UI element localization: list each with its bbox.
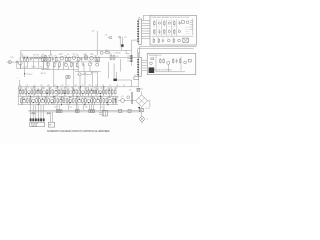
- wire R1 R2 drops: [23, 63, 25, 68]
- svg-text:47K: 47K: [84, 54, 87, 56]
- wire bridge bottom: [141, 107, 143, 109]
- transistor Q42: [168, 22, 170, 24]
- wire band top rail: [18, 86, 132, 88]
- wire inset link A: [140, 47, 197, 57]
- node inset1 legend: [185, 27, 190, 36]
- capacitor C20 electrolytic: [131, 92, 133, 104]
- capacitor C41: [176, 59, 178, 63]
- resistor R5: [55, 55, 57, 62]
- resistor R17 relay: [134, 75, 139, 80]
- transistor Q24: [50, 97, 54, 103]
- resistor R15: [104, 50, 110, 53]
- wire band to double rail drops: [56, 105, 58, 111]
- svg-text:2K2: 2K2: [77, 97, 80, 99]
- resistor R48: [90, 97, 93, 104]
- capacitor C10: [37, 89, 40, 94]
- svg-text:22K: 22K: [173, 26, 175, 28]
- transistor Q5: [90, 54, 94, 60]
- resistor R: [106, 98, 108, 104]
- svg-text:1K: 1K: [27, 88, 29, 90]
- resistor R3: [41, 55, 43, 62]
- wire feed to right: [116, 80, 131, 87]
- node analog row labels: [42, 54, 94, 56]
- svg-text:T1: T1: [102, 109, 104, 111]
- svg-text:1K5: 1K5: [40, 85, 43, 87]
- resistor R76: [188, 59, 191, 62]
- svg-text:10U: 10U: [59, 54, 62, 56]
- svg-text:1K0: 1K0: [163, 34, 165, 36]
- capacitor C6 xbox: [85, 54, 88, 59]
- svg-text:R14: R14: [76, 61, 79, 63]
- resistor R81: [153, 38, 154, 43]
- svg-text:C9: C9: [22, 97, 24, 99]
- resistor R71: [151, 58, 154, 60]
- node inset1 row1 labels: [153, 20, 180, 22]
- resistor R73: [163, 59, 164, 64]
- svg-text:D8: D8: [102, 85, 104, 87]
- transistor Q43: [186, 21, 189, 24]
- wire power links: [118, 100, 121, 102]
- wire left box stub: [21, 53, 23, 57]
- transistor Q: [27, 91, 30, 94]
- svg-text:D8: D8: [82, 85, 84, 87]
- svg-text:R9: R9: [94, 55, 96, 57]
- svg-text:R47: R47: [81, 97, 84, 99]
- resistor R66: [164, 29, 165, 34]
- svg-text:C15: C15: [61, 85, 64, 87]
- wire lower analog rail right: [75, 71, 101, 73]
- svg-text:C18: C18: [116, 56, 119, 58]
- capacitor C22 triple: [56, 110, 62, 113]
- svg-text:C40: C40: [101, 107, 104, 109]
- connector CN2 box: [48, 122, 54, 127]
- svg-text:Q2: Q2: [108, 88, 110, 90]
- wire left stage stub: [46, 57, 48, 69]
- transistor Q8: [88, 60, 91, 66]
- diode bridge BR1: [136, 88, 148, 106]
- resistor R52: [118, 110, 121, 113]
- wire inset link B: [138, 49, 194, 57]
- node inset2 frame: [147, 53, 196, 74]
- wire band bottom rail: [18, 104, 118, 106]
- svg-text:47K: 47K: [67, 54, 70, 56]
- resistor R50: [111, 97, 114, 104]
- wire drops to band: [53, 70, 55, 87]
- svg-text:C15: C15: [54, 85, 57, 87]
- svg-text:SIREN DRIVER UNIT: SIREN DRIVER UNIT: [149, 55, 162, 57]
- wire inset1 vline 5: [176, 19, 178, 36]
- wire band left riser: [19, 80, 21, 87]
- wire band mid rail: [18, 95, 118, 97]
- node inset1 micro2: [153, 34, 176, 36]
- capacitor C7: [82, 63, 84, 67]
- transistor Q21: [22, 97, 26, 103]
- resistor R: [88, 89, 90, 95]
- resistor R: [20, 98, 22, 104]
- resistor R7: [68, 56, 70, 62]
- transistor Q25: [59, 97, 63, 103]
- wire T1 leads: [99, 111, 102, 113]
- svg-text:47U: 47U: [158, 34, 160, 36]
- svg-text:10K: 10K: [78, 88, 81, 90]
- svg-text:C3: C3: [55, 62, 57, 64]
- wire mid rail lower partial: [22, 61, 100, 63]
- resistor C9: [24, 88, 26, 95]
- wire connector drops: [30, 105, 32, 119]
- svg-text:C1: C1: [176, 57, 178, 59]
- transistor Q27: [78, 97, 82, 103]
- svg-text:R15: R15: [105, 50, 108, 52]
- wire rowB drops: [20, 103, 22, 105]
- capacitor C5: [80, 57, 82, 61]
- resistor R30: [78, 88, 81, 95]
- resistor R42: [35, 97, 38, 104]
- svg-text:R8: R8: [92, 54, 94, 56]
- transistor Q45: [178, 30, 180, 32]
- resistor R47: [81, 97, 84, 104]
- transistor Q7: [64, 63, 67, 66]
- resistor R27: [60, 88, 63, 95]
- node band top labels: [20, 85, 126, 87]
- svg-text:2N2: 2N2: [89, 85, 92, 87]
- node rail junction dots: [34, 86, 35, 87]
- svg-text:C47: C47: [57, 88, 60, 90]
- svg-text:22N: 22N: [64, 88, 67, 90]
- wire rowA drops: [19, 95, 21, 96]
- wire inset2 stubs: [154, 69, 156, 71]
- svg-text:D11 1N4: D11 1N4: [185, 29, 190, 31]
- wire left box left side: [20, 50, 22, 68]
- svg-text:C40: C40: [70, 107, 73, 109]
- svg-text:12V DC: 12V DC: [32, 125, 38, 127]
- svg-text:REL K1: REL K1: [41, 73, 46, 75]
- resistor R33: [96, 88, 99, 95]
- wire analog row drops: [43, 62, 45, 69]
- svg-text:C2 10U: C2 10U: [23, 66, 28, 68]
- wire to pilot lamp: [141, 112, 143, 117]
- transistor Q6: [47, 63, 50, 66]
- svg-text:R41: R41: [26, 97, 29, 99]
- resistor R: [29, 98, 31, 104]
- resistor R14: [76, 61, 79, 68]
- svg-text:R12: R12: [58, 61, 61, 63]
- resistor R28: [66, 88, 69, 95]
- svg-text:R46: R46: [72, 97, 75, 99]
- wire band cross verticals: [26, 87, 28, 96]
- resistor R: [48, 98, 50, 104]
- resistor R46: [72, 97, 75, 104]
- resistor R: [34, 89, 36, 95]
- wire U1 top feed: [143, 15, 150, 20]
- connector CN1 pin squares: [30, 118, 45, 121]
- wire U2 top feed: [137, 53, 139, 58]
- svg-text:R10: R10: [71, 88, 74, 90]
- resistor R: [103, 98, 105, 104]
- svg-text:2K2: 2K2: [116, 97, 119, 99]
- svg-text:C12: C12: [75, 54, 78, 56]
- svg-text:10K: 10K: [153, 26, 155, 28]
- svg-text:560: 560: [101, 97, 104, 99]
- capacitor C3 xbox: [44, 56, 47, 62]
- wire R17 stub: [138, 80, 140, 87]
- wire arrow drop: [24, 68, 26, 77]
- resistor R: [46, 89, 48, 95]
- transistor Q23: [41, 97, 45, 103]
- svg-text:Q2: Q2: [35, 88, 37, 90]
- diode D5: [31, 112, 35, 114]
- transistor Q47: [178, 39, 181, 42]
- connector J1 input jack: [6, 57, 16, 64]
- svg-text:U1: U1: [138, 17, 140, 19]
- resistor R72: [160, 59, 161, 64]
- wire inset1 vline 2: [161, 19, 163, 36]
- svg-text:D4 1N4001: D4 1N4001: [114, 52, 121, 54]
- wire twin feed: [113, 72, 115, 79]
- resistor R25: [48, 88, 51, 95]
- wire vert x114 upper: [113, 64, 115, 73]
- resistor R23: [30, 88, 33, 95]
- resistor R: [75, 98, 77, 104]
- wire vert x120: [120, 59, 122, 72]
- resistor R51: [139, 108, 143, 111]
- resistor R: [115, 98, 117, 104]
- svg-text:Q1: Q1: [19, 58, 21, 60]
- capacitor C23 pair: [75, 110, 79, 113]
- resistor R16 pair: [66, 76, 70, 79]
- transistor Q26: [68, 97, 72, 103]
- wire inset2 vline2: [180, 57, 182, 71]
- resistor R: [111, 89, 113, 95]
- resistor R49: [99, 97, 102, 104]
- transistor Q14: [54, 88, 57, 94]
- wire pair to rail: [120, 47, 122, 51]
- node junction blob: [121, 44, 123, 47]
- svg-text:1K5: 1K5: [75, 85, 78, 87]
- wire band cross verticals lower: [22, 96, 24, 105]
- svg-text:4U7: 4U7: [72, 62, 75, 64]
- node left box smudges: [23, 66, 43, 68]
- svg-text:560: 560: [93, 97, 96, 99]
- svg-text:R40 1K0: R40 1K0: [185, 33, 190, 35]
- svg-text:2K2: 2K2: [53, 97, 56, 99]
- transistor Q: [81, 91, 84, 94]
- svg-text:D8: D8: [109, 85, 111, 87]
- svg-text:C9: C9: [85, 97, 87, 99]
- resistor R43: [44, 97, 47, 104]
- capacitor C4: [51, 56, 54, 61]
- svg-text:Q2: Q2: [100, 88, 102, 90]
- wire trimmer drops: [33, 59, 35, 69]
- resistor R34: [102, 88, 105, 95]
- svg-text:R5 47K: R5 47K: [32, 66, 37, 68]
- svg-text:C9: C9: [24, 88, 26, 90]
- svg-text:C15: C15: [33, 85, 36, 87]
- connector CN1 terminal box: [30, 122, 45, 127]
- capacitor C: [64, 90, 67, 93]
- resistor R1: [23, 56, 25, 63]
- svg-text:Q8: Q8: [88, 60, 90, 62]
- node inset1 frame: [150, 15, 197, 45]
- transistor Q46: [168, 39, 171, 42]
- transistor Q30: [108, 97, 112, 103]
- transistor Q1: [18, 58, 22, 65]
- resistor R8: [77, 55, 79, 62]
- wire bridge top: [141, 91, 143, 95]
- resistor R61: [154, 21, 155, 26]
- node rowB value labels: [22, 97, 119, 99]
- wire band left drop: [17, 87, 19, 105]
- wire vert x108: [108, 62, 110, 79]
- resistor R9: [94, 55, 96, 62]
- transistor Q3: [60, 54, 64, 60]
- svg-text:C47: C47: [49, 88, 52, 90]
- svg-text:C12: C12: [124, 37, 127, 39]
- transistor Q31: [121, 96, 125, 103]
- capacitor C31: [179, 21, 181, 25]
- wire inset1 vline 4: [171, 19, 173, 36]
- node pilot lamp LP1: [140, 117, 148, 124]
- svg-text:RY1: RY1: [134, 75, 137, 77]
- wire inset1 vline 3: [166, 19, 168, 36]
- resistor R: [66, 98, 68, 104]
- transistor Q44: [168, 30, 170, 32]
- svg-text:R60: R60: [85, 107, 88, 109]
- resistor R63: [174, 21, 175, 26]
- resistor R12: [58, 61, 61, 68]
- svg-text:C40: C40: [54, 107, 57, 109]
- svg-text:22N: 22N: [20, 88, 23, 90]
- svg-text:R8: R8: [50, 54, 52, 56]
- svg-text:BC5: BC5: [45, 97, 48, 99]
- svg-text:K: K: [17, 78, 18, 80]
- svg-text:BC: BC: [168, 34, 170, 36]
- resistor R: [39, 98, 41, 104]
- resistor R83: [173, 38, 174, 43]
- svg-text:R33: R33: [61, 97, 64, 99]
- svg-text:+12V: +12V: [91, 31, 95, 33]
- transistor Q51: [150, 62, 153, 65]
- svg-text:VR1 VR2: VR1 VR2: [33, 54, 40, 56]
- transistor Q: [69, 91, 72, 94]
- wire CN2 drops: [49, 112, 51, 122]
- resistor R6: [65, 55, 67, 62]
- resistor R82: [158, 38, 159, 43]
- resistor R: [52, 89, 54, 95]
- svg-text:R8: R8: [42, 54, 44, 56]
- transistor Q9: [96, 63, 99, 66]
- wire bridge right: [148, 101, 150, 107]
- svg-text:C47: C47: [115, 88, 118, 90]
- resistor R62: [164, 21, 165, 26]
- resistor R10: [98, 56, 100, 62]
- svg-text:2K2: 2K2: [153, 34, 155, 36]
- resistor R65: [154, 29, 155, 34]
- svg-text:1N4: 1N4: [37, 97, 40, 99]
- capacitor C33: [162, 39, 164, 43]
- wire lower analog rail: [41, 69, 78, 71]
- wire bottom double rail B: [29, 111, 141, 113]
- svg-text:R10: R10: [42, 88, 45, 90]
- svg-text:8 OHM 15W HORN SPKR: 8 OHM 15W HORN SPKR: [156, 70, 171, 72]
- svg-text:Q31: Q31: [121, 96, 124, 98]
- svg-text:L1: L1: [146, 119, 148, 121]
- resistor R13: [70, 62, 72, 68]
- svg-text:330: 330: [173, 34, 175, 36]
- svg-text:33K: 33K: [95, 85, 97, 87]
- svg-text:L7: L7: [68, 85, 70, 87]
- resistor R67: [174, 29, 175, 34]
- wire right rail drop: [131, 50, 133, 66]
- node below band labels: [54, 107, 103, 109]
- transistor Q12: [77, 73, 81, 76]
- transistor Q: [99, 91, 102, 94]
- node inset1 row2 labels: [153, 28, 180, 30]
- capacitor C1: [16, 60, 18, 64]
- resistor R35: [108, 88, 111, 95]
- resistor R2: [26, 56, 28, 63]
- svg-text:R18: R18: [110, 54, 113, 56]
- wire right analog drops: [78, 67, 80, 72]
- node trimmer row VR1 VR2: [33, 54, 43, 59]
- resistor R64: [181, 21, 184, 23]
- wire inset1 vline 1: [156, 19, 158, 36]
- svg-text:C20: C20: [129, 90, 132, 92]
- svg-text:22K: 22K: [90, 62, 93, 64]
- svg-text:1N4: 1N4: [69, 97, 72, 99]
- transistor Q2: [44, 55, 47, 58]
- svg-text:4U7: 4U7: [46, 62, 49, 64]
- svg-text:R33: R33: [96, 88, 99, 90]
- resistor R: [85, 98, 87, 104]
- capacitor C: [93, 90, 96, 93]
- resistor R41: [26, 97, 29, 104]
- speaker SP1 dark block: [149, 67, 155, 73]
- svg-text:Q10: Q10: [105, 34, 108, 36]
- node left box junctions: [24, 57, 25, 58]
- resistor R11: [53, 62, 55, 68]
- svg-text:R9: R9: [26, 85, 28, 87]
- node power junction: [138, 107, 140, 108]
- wire top bus rail: [21, 49, 132, 51]
- op-amp U1 pin-strip IC: [137, 17, 141, 44]
- svg-text:Q6: Q6: [123, 85, 125, 87]
- transistor Q29: [96, 97, 100, 103]
- svg-text:TR1: TR1: [40, 66, 43, 68]
- wire loop upper: [81, 72, 97, 77]
- node analog row2 labels: [46, 62, 93, 64]
- svg-text:R19: R19: [64, 62, 67, 64]
- resistor R45: [62, 97, 65, 104]
- wire U1 left feed: [132, 40, 138, 50]
- node inset1 row3 labels: [152, 37, 174, 39]
- transistor Q10: [105, 34, 112, 38]
- resistor R53: [128, 110, 131, 113]
- node blob feed: [113, 79, 117, 81]
- transistor Q22: [32, 97, 36, 103]
- resistor R: [105, 89, 107, 95]
- relay K2 xbox: [183, 38, 189, 42]
- transistor Q52: [167, 61, 170, 64]
- transistor Q28: [87, 97, 91, 103]
- wire Q1 drop: [19, 65, 21, 69]
- transistor Q4: [72, 53, 76, 59]
- node ladder junctions: [131, 55, 133, 57]
- svg-text:SCHEMATIC DIAGRAM (CIRCUIT) CO: SCHEMATIC DIAGRAM (CIRCUIT) CONTROLS AL …: [47, 130, 110, 133]
- wire vertical pair: [119, 37, 121, 48]
- svg-text:J1 IN: J1 IN: [10, 57, 14, 59]
- svg-text:4K7: 4K7: [163, 26, 165, 28]
- wire inset2 vline: [155, 55, 157, 71]
